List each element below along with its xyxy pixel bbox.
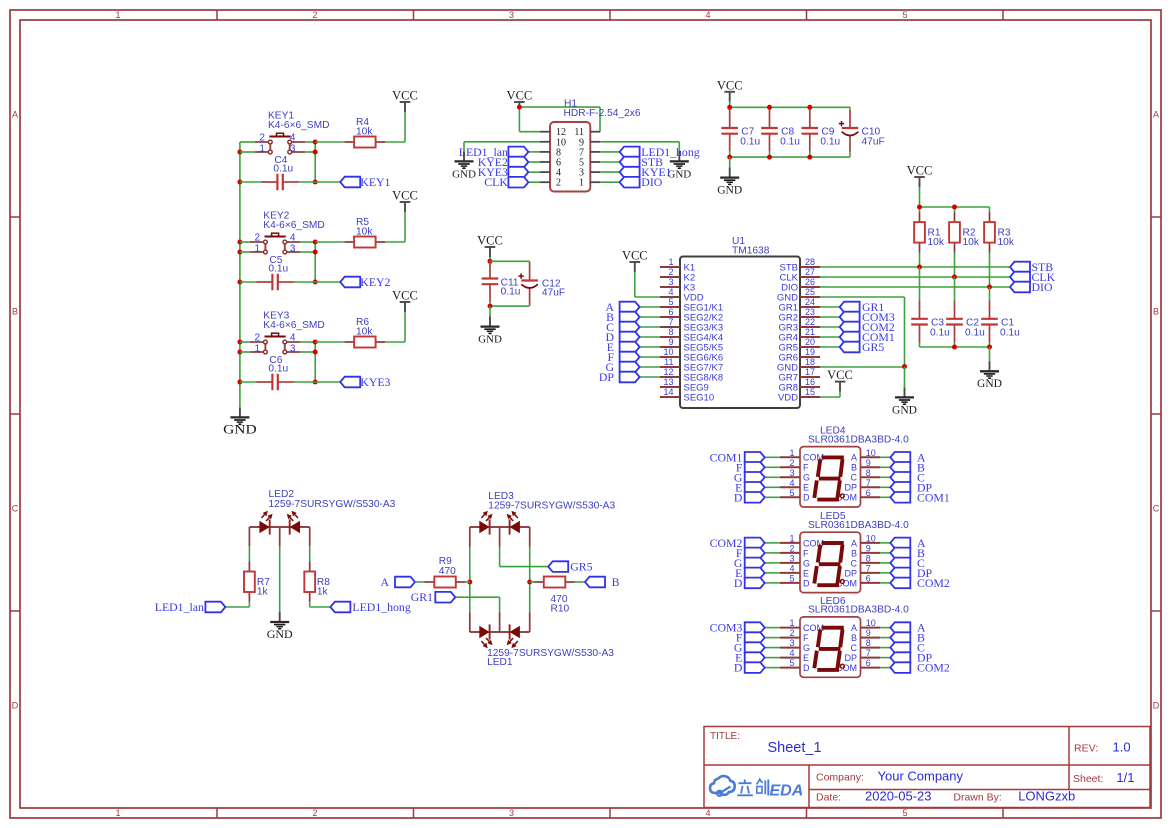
- svg-text:16: 16: [805, 377, 815, 387]
- wire R10 to B: [574, 581, 585, 583]
- svg-text:9: 9: [866, 543, 871, 553]
- svg-text:C: C: [851, 643, 858, 653]
- net label D at LED4: [734, 490, 765, 504]
- net label COM2 at U1: [840, 320, 895, 334]
- svg-text:DP: DP: [599, 370, 615, 384]
- svg-text:1: 1: [789, 533, 794, 543]
- junction R2 at bus: [952, 275, 957, 280]
- wires capacitor C6: [240, 381, 315, 383]
- svg-text:VCC: VCC: [907, 164, 933, 178]
- svg-text:0.1u: 0.1u: [268, 264, 288, 275]
- net label COM1 at LED4: [710, 450, 765, 464]
- svg-text:D: D: [734, 576, 743, 590]
- svg-text:D: D: [1153, 701, 1160, 711]
- junction U1 GND net: [902, 364, 907, 369]
- svg-text:7: 7: [866, 648, 871, 658]
- junctions R network top: [917, 205, 957, 210]
- switch KEY2 labels: [263, 211, 324, 231]
- junction C11 bottom: [488, 304, 493, 309]
- capacitor C6 labels: [268, 355, 288, 375]
- wire rail to R10: [530, 581, 535, 583]
- svg-text:3: 3: [789, 638, 794, 648]
- svg-text:KYE3: KYE3: [360, 375, 390, 389]
- svg-text:SEG10: SEG10: [684, 392, 715, 403]
- wire R9 to rail: [465, 581, 470, 583]
- svg-text:47uF: 47uF: [542, 288, 565, 299]
- resistor R1 labels: [928, 228, 945, 249]
- wire LED6 left pin 3: [765, 647, 780, 649]
- display LED5 pin stubs: [780, 543, 880, 583]
- display LED4 pin stubs: [780, 457, 880, 497]
- wire LED4 left pin 3: [765, 476, 780, 478]
- net label COM1 at LED4: [890, 490, 950, 504]
- svg-text:5: 5: [668, 297, 673, 307]
- junctions C7 bank bottom: [727, 155, 812, 160]
- wire R7 to LED1_lan: [225, 602, 249, 607]
- net label STB right: [1010, 260, 1053, 274]
- resistor R10 labels: [551, 594, 570, 615]
- wire LED4 right pin 6: [880, 496, 890, 498]
- svg-text:1: 1: [254, 243, 260, 254]
- wires resistor R6: [315, 312, 405, 342]
- svg-text:D: D: [803, 578, 810, 588]
- wire LED5 left pin 2: [765, 552, 780, 554]
- LED2 rail wires: [249, 527, 309, 612]
- wire C7 bank top rail: [730, 107, 850, 110]
- wire VCC to C7 bank: [729, 102, 731, 108]
- display LED6 pin numbers and names: [789, 618, 875, 673]
- svg-text:10: 10: [866, 448, 876, 458]
- capacitor C11: [482, 261, 499, 303]
- svg-text:COM1: COM1: [917, 490, 950, 504]
- capacitor C12 (polarized 47uF): [518, 263, 538, 305]
- svg-text:1/1: 1/1: [1116, 770, 1134, 785]
- svg-text:D: D: [803, 663, 810, 673]
- svg-text:G: G: [803, 473, 810, 483]
- svg-text:R10: R10: [551, 603, 570, 614]
- net label E at LED4: [735, 480, 765, 494]
- svg-text:4: 4: [789, 563, 794, 573]
- svg-text:5: 5: [902, 808, 907, 818]
- resistor R5 labels: [356, 217, 373, 238]
- net label COM2 at LED5: [890, 576, 950, 590]
- IC U1 TM1638 body: [680, 257, 800, 409]
- svg-text:4: 4: [290, 233, 296, 244]
- capacitor C8: [761, 110, 778, 152]
- capacitor C4 labels: [273, 155, 293, 175]
- svg-text:VCC: VCC: [392, 189, 418, 203]
- svg-text:DP: DP: [844, 653, 857, 663]
- svg-text:25: 25: [805, 287, 815, 297]
- junction left rail: [467, 580, 472, 585]
- resistor R6: [345, 337, 385, 348]
- wire LED6 left pin 1: [765, 627, 780, 629]
- capacitor C8 labels: [780, 127, 800, 148]
- switch KEY3 K4-6x6_SMD: [250, 333, 300, 354]
- capacitor C1 labels: [1000, 318, 1020, 339]
- net label COM2 at LED6: [890, 661, 950, 675]
- junction at H1 VCC: [517, 105, 522, 110]
- net label CLK right: [1010, 270, 1056, 284]
- wire U1 segment pin F: [640, 356, 660, 358]
- svg-text:26: 26: [805, 277, 815, 287]
- net label DP at U1: [599, 370, 640, 384]
- svg-text:1: 1: [789, 448, 794, 458]
- svg-text:12: 12: [663, 367, 673, 377]
- net label KEY2: [340, 275, 390, 289]
- wire C1 top: [989, 287, 991, 302]
- svg-text:B: B: [12, 307, 18, 317]
- svg-text:15: 15: [805, 387, 815, 397]
- svg-text:2: 2: [789, 628, 794, 638]
- svg-text:1: 1: [259, 143, 265, 154]
- resistor R8: [304, 562, 315, 602]
- wire LED4 right pin 10: [880, 456, 890, 458]
- svg-text:E: E: [803, 483, 809, 493]
- wire LED4 left pin 2: [765, 466, 780, 468]
- net label G at LED5: [734, 556, 765, 570]
- capacitor C7: [721, 110, 738, 152]
- power VCC at U1 VDD pin15: [827, 368, 853, 392]
- svg-text:GR5: GR5: [862, 340, 884, 354]
- svg-text:4: 4: [789, 478, 794, 488]
- title block frame: [704, 727, 1150, 808]
- switch KEY2 pin numbers: [254, 233, 295, 255]
- capacitor C6: [256, 374, 294, 390]
- wire U1 DIO net: [820, 286, 1010, 288]
- wire LED6 left pin 2: [765, 637, 780, 639]
- switch KEY3 labels: [263, 311, 324, 331]
- wire U1 CLK net: [820, 276, 1010, 278]
- svg-text:9: 9: [668, 337, 673, 347]
- svg-text:K4-6×6_SMD: K4-6×6_SMD: [263, 220, 324, 231]
- wire C11 C12 bottom rail: [490, 302, 530, 306]
- wire LED4 right pin 7: [880, 486, 890, 488]
- svg-text:27: 27: [805, 267, 815, 277]
- wires capacitor C4: [240, 181, 315, 183]
- title block Date: [816, 789, 1075, 804]
- svg-text:VCC: VCC: [507, 89, 533, 103]
- net label KYE3: [340, 375, 390, 389]
- capacitor C9 labels: [820, 127, 840, 148]
- capacitor C12 labels: [542, 278, 565, 298]
- svg-text:8: 8: [668, 327, 673, 337]
- wire R8 to LED1_hong: [310, 602, 331, 607]
- LED bridge rails: [470, 527, 530, 632]
- svg-text:1: 1: [254, 343, 260, 354]
- wire C7 bank bottom rail: [730, 156, 850, 158]
- capacitor C4: [261, 174, 299, 190]
- net label C at U1: [606, 320, 639, 334]
- svg-text:VCC: VCC: [392, 89, 418, 103]
- svg-text:2: 2: [254, 233, 260, 244]
- wire C11 to C12 top: [490, 261, 530, 264]
- svg-text:3: 3: [290, 343, 296, 354]
- wire LED5 left pin 5: [765, 582, 780, 584]
- svg-text:0.1u: 0.1u: [820, 137, 840, 148]
- svg-text:VDD: VDD: [778, 392, 798, 403]
- net label LED1_hong: [620, 145, 700, 159]
- svg-text:D: D: [734, 661, 743, 675]
- display LED6 pin stubs: [780, 628, 880, 668]
- svg-text:E: E: [803, 653, 809, 663]
- svg-text:7: 7: [866, 563, 871, 573]
- svg-text:1: 1: [115, 10, 120, 20]
- wire A to R9: [415, 581, 426, 583]
- net label B at U1: [606, 310, 639, 324]
- net label G at U1: [605, 360, 639, 374]
- net label GR1 at U1: [840, 300, 885, 314]
- display LED5 labels: [808, 511, 909, 531]
- wire LED4 right pin 8: [880, 476, 890, 478]
- net label F at LED5: [736, 546, 765, 560]
- wire LED5 left pin 3: [765, 562, 780, 564]
- wire capacitor C10 bottom: [849, 152, 851, 157]
- svg-text:D: D: [12, 701, 19, 711]
- wire right rail KEY3: [314, 342, 316, 382]
- svg-text:3: 3: [789, 553, 794, 563]
- net label DP at LED4: [890, 480, 932, 494]
- wire H1 left pin row KYE2: [528, 161, 540, 163]
- wire U1 pin18 GND: [820, 366, 905, 368]
- connector H1 HDR-F-2.54_2x6 body: [550, 122, 590, 192]
- svg-text:23: 23: [805, 307, 815, 317]
- net label E at U1: [607, 340, 640, 354]
- wire U1 segment pin D: [640, 336, 660, 338]
- svg-text:B: B: [1153, 307, 1159, 317]
- switch KEY1 labels: [268, 111, 329, 131]
- wire H1 right pin row DIO: [600, 181, 619, 183]
- wire LED6 right pin 10: [880, 627, 890, 629]
- net label LED1_lan: [459, 145, 529, 159]
- svg-text:C: C: [851, 473, 858, 483]
- net label B at LED4: [890, 460, 925, 474]
- switch KEY3 pin numbers: [254, 333, 295, 355]
- svg-text:24: 24: [805, 297, 815, 307]
- svg-text:D: D: [734, 490, 743, 504]
- svg-text:GR1: GR1: [411, 590, 433, 604]
- resistor R9 labels: [439, 556, 456, 577]
- display LED4 pin numbers and names: [789, 448, 875, 503]
- svg-text:G: G: [803, 558, 810, 568]
- capacitor C5: [256, 274, 294, 290]
- wire LED5 right pin 8: [880, 562, 890, 564]
- junctions right rail KEY3: [313, 340, 318, 385]
- net label COM1 at U1: [840, 330, 895, 344]
- svg-text:2: 2: [556, 178, 561, 189]
- title block sheet name: [768, 740, 822, 756]
- svg-text:18: 18: [805, 357, 815, 367]
- svg-text:0.1u: 0.1u: [930, 327, 950, 338]
- svg-text:3: 3: [668, 277, 673, 287]
- display LED5 pin numbers and names: [789, 533, 875, 588]
- wire LED4 left pin 4: [765, 486, 780, 488]
- svg-text:4: 4: [705, 10, 710, 20]
- junctions on left key bus: [237, 150, 242, 385]
- wires VCC to H1 pins 12 and 11: [519, 105, 600, 132]
- resistor R9: [425, 577, 465, 588]
- ground GND below C1: [977, 361, 1002, 390]
- svg-text:22: 22: [805, 317, 815, 327]
- LED3 labels: [488, 491, 615, 512]
- capacitor C10 (polarized 47uF): [839, 110, 859, 152]
- svg-text:GR5: GR5: [570, 560, 592, 574]
- ground GND left of H1: [452, 151, 476, 180]
- net label LED1_lan: [155, 600, 226, 614]
- capacitor C2 labels: [965, 318, 985, 339]
- LED LED1 dual diodes: [479, 624, 520, 648]
- svg-text:4: 4: [290, 133, 296, 144]
- svg-text:3: 3: [509, 808, 514, 818]
- svg-text:14: 14: [663, 387, 673, 397]
- svg-text:VCC: VCC: [717, 78, 743, 92]
- capacitor C1: [981, 301, 998, 343]
- svg-text:GND: GND: [892, 404, 917, 416]
- net label COM3 at U1: [840, 310, 895, 324]
- svg-text:0.1u: 0.1u: [501, 287, 521, 298]
- svg-text:10: 10: [866, 533, 876, 543]
- junction right rail: [527, 580, 532, 585]
- wire U1 STB net: [820, 266, 1010, 268]
- svg-text:CLK: CLK: [484, 175, 508, 189]
- wire C2 top: [954, 277, 956, 302]
- resistor R4 labels: [356, 117, 373, 138]
- wire H1 left pin row CLK: [528, 181, 540, 183]
- IC U1 labels: [732, 236, 770, 256]
- svg-text:VCC: VCC: [622, 249, 648, 263]
- wire H1 right pin row STB: [600, 161, 619, 163]
- ground GND right of H1: [667, 151, 691, 180]
- wire VCC to C11: [489, 257, 491, 261]
- svg-text:F: F: [803, 633, 809, 643]
- resistor R1: [914, 212, 925, 252]
- svg-text:0.1u: 0.1u: [268, 364, 288, 375]
- wire LED6 left pin 5: [765, 667, 780, 669]
- svg-text:A: A: [851, 623, 857, 633]
- wire LED5 left pin 1: [765, 542, 780, 544]
- svg-text:B: B: [851, 633, 857, 643]
- svg-text:Sheet:: Sheet:: [1073, 773, 1103, 785]
- svg-text:4: 4: [789, 648, 794, 658]
- wires capacitor C9: [809, 128, 811, 157]
- svg-text:6: 6: [866, 658, 871, 668]
- net label DIO right: [1010, 280, 1053, 294]
- svg-text:2: 2: [254, 333, 260, 344]
- svg-text:Sheet_1: Sheet_1: [768, 740, 822, 756]
- svg-text:B: B: [851, 548, 857, 558]
- svg-text:GND: GND: [478, 334, 502, 346]
- resistor R3: [984, 212, 995, 252]
- svg-text:10: 10: [663, 347, 673, 357]
- LED2 top bar: [249, 526, 309, 528]
- svg-text:DP: DP: [844, 483, 857, 493]
- wire to net flag KEY1: [315, 181, 340, 183]
- wire U1 GR pin COM2: [820, 326, 840, 328]
- net label C at LED6: [890, 641, 925, 655]
- logo EasyEDA: [710, 776, 803, 799]
- wires switch KEY2 to rails: [240, 242, 315, 252]
- wire R3 bottom: [989, 253, 991, 288]
- power VCC above C7: [717, 78, 743, 102]
- wire C bank to GND: [989, 347, 991, 361]
- power VCC for H1: [507, 89, 533, 108]
- svg-text:10k: 10k: [928, 237, 945, 248]
- svg-text:4: 4: [705, 808, 710, 818]
- resistor R5: [345, 237, 385, 248]
- net label A at LED5: [890, 536, 926, 550]
- net label A: [380, 575, 415, 589]
- net label DP at LED6: [890, 651, 932, 665]
- display LED4 seven segment digit: [814, 457, 844, 499]
- svg-text:7: 7: [866, 478, 871, 488]
- wire C2 bottom: [954, 343, 956, 348]
- net label D at LED6: [734, 661, 765, 675]
- svg-text:COM2: COM2: [917, 576, 950, 590]
- LED LED3 dual diodes: [479, 511, 520, 535]
- wire LED6 right pin 6: [880, 667, 890, 669]
- wire LED5 right pin 6: [880, 582, 890, 584]
- net label D at U1: [605, 330, 639, 344]
- junctions right rail KEY2: [313, 240, 318, 285]
- power VCC at U1 VDD pin4: [622, 249, 648, 273]
- svg-text:VCC: VCC: [477, 234, 503, 248]
- svg-text:GND: GND: [977, 378, 1002, 390]
- wire left key bus: [239, 142, 241, 407]
- capacitor C3: [911, 301, 928, 343]
- svg-text:GND: GND: [267, 627, 293, 641]
- svg-text:DIO: DIO: [641, 175, 662, 189]
- junction R3 at bus: [987, 285, 992, 290]
- net label KEY1: [340, 175, 390, 189]
- svg-text:K4-6×6_SMD: K4-6×6_SMD: [263, 320, 324, 331]
- junctions right rail KEY1: [313, 140, 318, 185]
- wire H1 left pin row KYE3: [528, 171, 540, 173]
- svg-text:1: 1: [789, 618, 794, 628]
- junctions C bank bottom: [952, 345, 992, 350]
- svg-text:A: A: [12, 110, 18, 120]
- svg-text:20: 20: [805, 337, 815, 347]
- title block TITLE: [710, 731, 740, 742]
- svg-text:1259-7SURSYGW/S530-A3: 1259-7SURSYGW/S530-A3: [269, 499, 396, 510]
- svg-text:0.1u: 0.1u: [965, 327, 985, 338]
- net label C at LED5: [890, 556, 925, 570]
- resistor R7: [244, 562, 255, 602]
- wire right rail KEY2: [314, 242, 316, 282]
- svg-text:A: A: [851, 453, 857, 463]
- wire U1 segment pin E: [640, 346, 660, 348]
- svg-text:SLR0361DBA3BD-4.0: SLR0361DBA3BD-4.0: [808, 605, 909, 616]
- svg-text:F: F: [803, 463, 809, 473]
- net label E at LED5: [735, 566, 765, 580]
- svg-text:K4-6×6_SMD: K4-6×6_SMD: [268, 120, 329, 131]
- title block REV: [1074, 740, 1131, 755]
- svg-text:5: 5: [789, 658, 794, 668]
- wire U1 GR pin COM3: [820, 316, 840, 318]
- net label B at LED6: [890, 631, 925, 645]
- resistor R8 labels: [317, 577, 330, 598]
- wire R network top rail: [920, 207, 990, 212]
- switch KEY1 K4-6x6_SMD: [255, 133, 305, 154]
- net label A at LED6: [890, 621, 926, 635]
- switch KEY2 K4-6x6_SMD: [250, 233, 300, 254]
- wire LED5 right pin 7: [880, 572, 890, 574]
- power VCC above R4: [392, 89, 418, 113]
- resistor R2: [949, 212, 960, 252]
- svg-text:4: 4: [668, 287, 673, 297]
- svg-text:9: 9: [866, 458, 871, 468]
- capacitor C5 labels: [268, 255, 288, 275]
- IC U1 pin stubs: [660, 267, 820, 397]
